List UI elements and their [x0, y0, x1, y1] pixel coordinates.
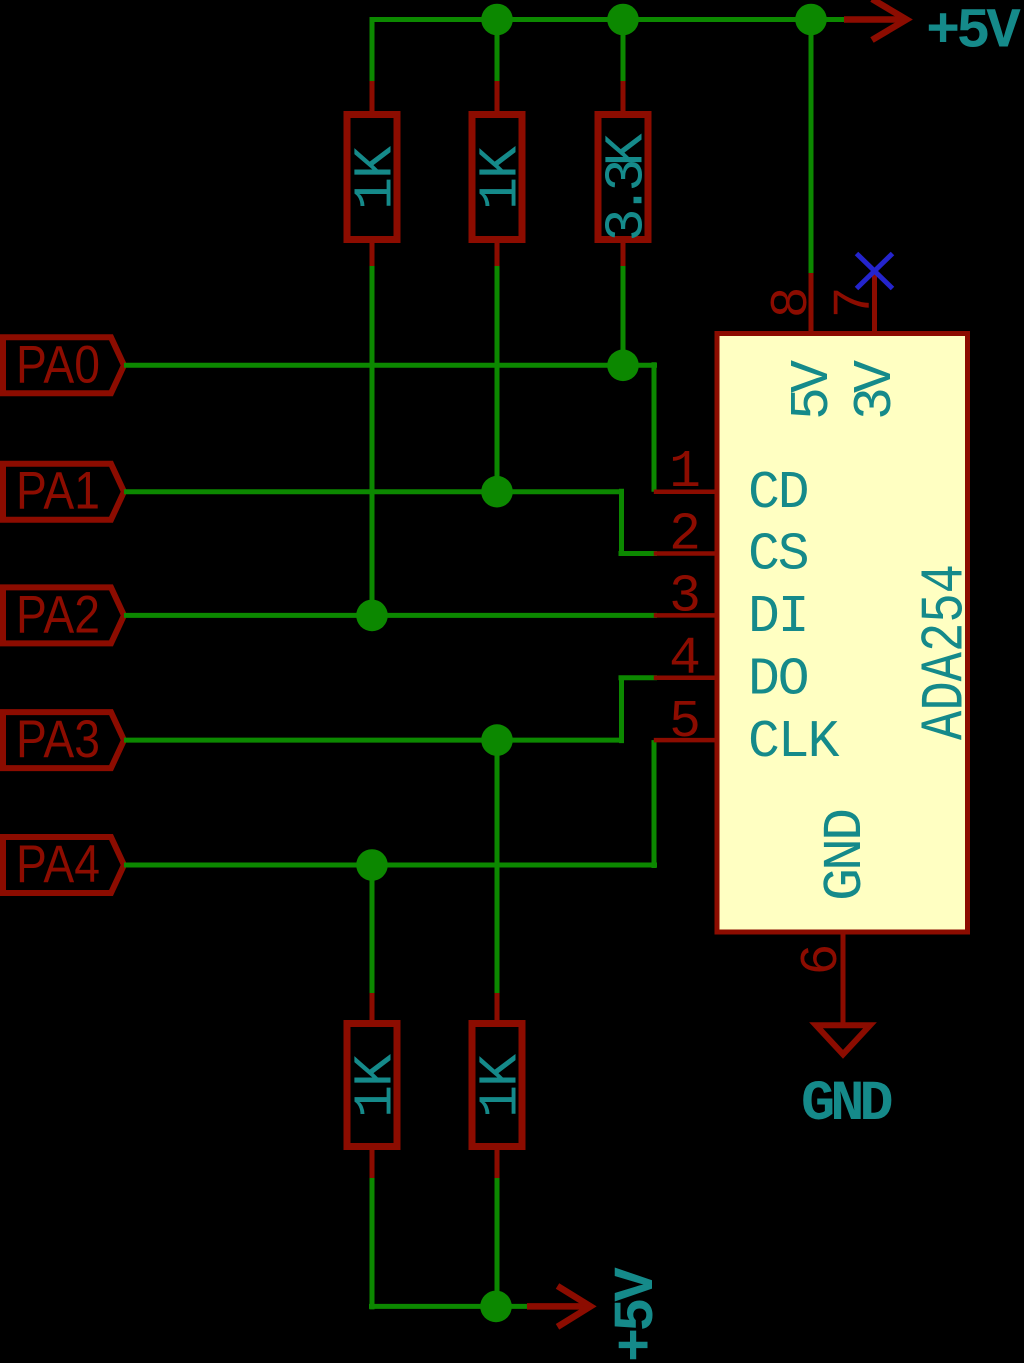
svg-text:+5V: +5V	[926, 1, 1021, 65]
wire R5 bottom drop	[370, 1178, 375, 1309]
pin 6 stub	[841, 934, 846, 1025]
wire PA1 to corner	[124, 489, 622, 494]
wire PA2 to pin 3	[124, 613, 657, 618]
wire PA4 to corner	[124, 863, 657, 868]
svg-text:1K: 1K	[345, 1054, 408, 1118]
wire rail drop to R2	[495, 20, 500, 85]
svg-text:PA1: PA1	[16, 462, 100, 521]
resistor R3 (3.3K)	[596, 81, 659, 269]
pin 1 stub	[654, 489, 719, 494]
resistor R2 (1K, top middle)	[470, 81, 533, 269]
pin 8 stub	[809, 273, 814, 334]
IC U1 ADA254 body	[717, 334, 968, 933]
hierarchical label PA0	[3, 335, 124, 394]
junction PA4/R5	[356, 849, 388, 881]
power +5V (bottom) arrow	[527, 1286, 591, 1327]
svg-text:CS: CS	[748, 525, 808, 585]
wire R4 top from PA3	[495, 740, 500, 996]
power +5V (top) arrow	[844, 0, 907, 40]
wire top +5V rail	[370, 17, 845, 22]
svg-text:3V: 3V	[844, 360, 907, 420]
wire PA3 jog up	[619, 678, 624, 743]
svg-text:PA0: PA0	[16, 335, 100, 394]
svg-text:ADA254: ADA254	[913, 564, 981, 740]
junction PA2/R1	[356, 600, 388, 632]
wire corner up to pin 5	[652, 740, 657, 868]
pin 7 stub	[872, 273, 877, 334]
svg-text:DO: DO	[748, 649, 808, 709]
svg-text:5V: 5V	[781, 360, 844, 420]
pin 2 stub	[654, 551, 719, 556]
wire R4 bottom drop	[495, 1178, 500, 1306]
hierarchical label PA3	[3, 710, 124, 769]
junction PA1/R2	[481, 476, 513, 508]
hierarchical label PA1	[3, 462, 124, 521]
svg-text:DI: DI	[748, 587, 808, 647]
wire rail drop to R3	[621, 20, 626, 85]
svg-text:7: 7	[825, 286, 885, 318]
ground symbol	[816, 1025, 870, 1054]
resistor R5 (1K, bottom left)	[345, 993, 408, 1181]
junction on rail at pin8 drop	[795, 4, 827, 36]
junction on rail at R2	[481, 4, 513, 36]
svg-text:CD: CD	[748, 463, 808, 523]
wire R3 bottom to PA0 line	[621, 266, 626, 365]
svg-text:1: 1	[669, 442, 701, 502]
junction PA3/R4	[481, 724, 513, 756]
svg-text:GND: GND	[814, 810, 877, 901]
svg-text:PA3: PA3	[16, 710, 100, 769]
svg-text:1K: 1K	[345, 146, 408, 210]
wire rail drop to R1	[370, 17, 375, 84]
pin 5 stub	[654, 738, 719, 743]
no-connect X on pin 7	[857, 254, 893, 289]
svg-text:1K: 1K	[470, 1054, 533, 1118]
hierarchical label PA4	[3, 835, 124, 894]
wire PA3 jog to pin 4	[619, 675, 658, 680]
wire R1 bottom to PA2 line	[370, 266, 375, 615]
junction PA0/R3	[607, 350, 639, 382]
svg-text:1K: 1K	[470, 146, 533, 210]
svg-text:PA4: PA4	[16, 835, 100, 894]
wire PA1 jog to pin 2	[619, 551, 658, 556]
wire R2 bottom to PA1 line	[495, 266, 500, 492]
resistor R4 (1K, bottom middle)	[470, 993, 533, 1181]
svg-text:+5V: +5V	[606, 1267, 670, 1362]
svg-text:5: 5	[669, 692, 701, 752]
svg-text:PA2: PA2	[16, 585, 100, 644]
pin 3 stub	[654, 613, 719, 618]
svg-text:3.3K: 3.3K	[596, 133, 659, 241]
svg-text:2: 2	[669, 504, 701, 564]
svg-text:3: 3	[669, 567, 701, 627]
svg-text:CLK: CLK	[748, 712, 840, 772]
wire rail drop to IC pin 8	[809, 20, 814, 274]
svg-text:GND: GND	[801, 1073, 891, 1137]
wire PA3 to corner	[124, 738, 622, 743]
wire corner down to pin 1	[652, 362, 657, 491]
wire bottom rail	[369, 1304, 527, 1309]
pin 4 stub	[654, 675, 719, 680]
wire PA1 jog down	[619, 489, 624, 554]
hierarchical label PA2	[3, 585, 124, 644]
resistor R1 (1K, top left)	[345, 81, 408, 269]
wire R5 top from PA4	[370, 865, 375, 996]
wire PA0 to corner	[124, 363, 657, 368]
svg-text:8: 8	[762, 286, 822, 318]
junction bottom rail	[480, 1291, 512, 1323]
svg-text:4: 4	[669, 629, 701, 689]
svg-text:6: 6	[792, 944, 852, 976]
junction on rail at R3	[607, 4, 639, 36]
